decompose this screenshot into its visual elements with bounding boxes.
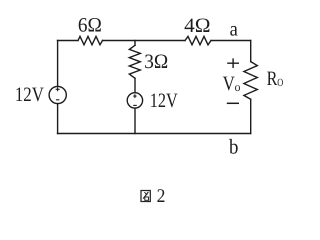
svg-text:O: O <box>277 77 283 89</box>
svg-text:V: V <box>223 73 235 95</box>
svg-text:2: 2 <box>157 186 166 207</box>
svg-text:R: R <box>267 68 278 90</box>
svg-text:o: o <box>235 80 241 94</box>
svg-text:3Ω: 3Ω <box>144 51 168 73</box>
svg-text:6Ω: 6Ω <box>78 14 102 36</box>
svg-text:a: a <box>230 18 238 40</box>
svg-text:12V: 12V <box>150 90 178 112</box>
svg-text:b: b <box>229 135 238 159</box>
svg-text:12V: 12V <box>15 84 44 106</box>
svg-text:4Ω: 4Ω <box>184 15 210 37</box>
